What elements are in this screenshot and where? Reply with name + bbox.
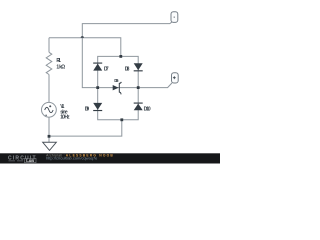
svg-text:D6: D6 bbox=[114, 78, 119, 83]
svg-text:R1: R1 bbox=[56, 58, 61, 64]
svg-text:D8: D8 bbox=[125, 67, 130, 73]
svg-text:D10: D10 bbox=[144, 106, 151, 112]
svg-text:LAB: LAB bbox=[26, 159, 34, 163]
svg-text:1 kΩ: 1 kΩ bbox=[56, 64, 65, 70]
svg-text:10 Hz: 10 Hz bbox=[60, 115, 70, 121]
svg-text:D7: D7 bbox=[104, 67, 109, 73]
svg-text:D9: D9 bbox=[85, 106, 90, 112]
svg-text:http://circuitlab.com/cqwaq7e: http://circuitlab.com/cqwaq7e bbox=[46, 157, 97, 161]
